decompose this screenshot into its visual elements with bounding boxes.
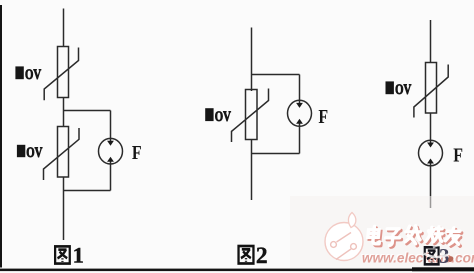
wire node B to F1 branch bottom [64,190,111,192]
label MOV2 [17,145,25,157]
caption glyph 图 of 图2 [239,246,254,263]
caption glyph 图 of 图1 [55,246,70,263]
varistor MOV3 body [246,90,258,140]
varistor MOV3 diagonal [232,89,269,143]
wire fig2 parallel box bottom [252,153,300,155]
wire fig1 top feed [63,9,65,47]
wire F1 branch lower lead [110,161,112,191]
caption numeral 1 of 图1 [73,243,84,268]
varistor MOV4 diagonal [414,65,448,118]
svg-text:OV: OV [25,65,42,82]
wire fig1 bottom feed [63,191,65,241]
wire fig2 parallel box top [252,74,300,76]
arrowhead F2 top [296,103,303,108]
watermark logo link line lower [336,249,351,260]
fuse F3 circle [419,140,443,166]
wire F2 branch lower lead [299,124,301,154]
watermark logo outer circle [325,213,363,261]
border artifact bottom line [0,269,474,272]
caption numeral 3 of 图3 [439,244,450,268]
wire F2 branch upper lead [299,75,301,104]
red artifact mark [448,256,453,262]
svg-text:www.elecfans.com: www.elecfans.com [362,250,474,265]
label MOV3 [205,108,213,121]
svg-text:F: F [132,141,142,163]
fuse F1 circle [99,138,123,164]
arrowhead F2 bottom [296,119,303,124]
wire MOV3 to box bottom [251,140,253,154]
label MOV4 [386,81,394,94]
varistor MOV2 diagonal [44,128,80,180]
svg-text:1: 1 [73,243,84,268]
svg-text:OV: OV [395,80,412,97]
varistor MOV1 diagonal [44,48,78,101]
background wash bottom right [290,196,474,268]
svg-text:OV: OV [26,143,43,160]
wire between MOV1 and node A [63,98,65,128]
watermark logo bubble tail [348,213,355,228]
wire fig2 top feed [251,28,253,92]
watermark brand characters 电子发烧友 [367,226,463,247]
wire fig3 bottom feed [430,163,432,208]
caption numeral 2 of 图2 [256,243,268,269]
watermark logo link line upper [337,233,352,243]
arrowhead F3 top [427,143,434,148]
border artifact left edge [0,5,2,268]
svg-text:F: F [318,105,328,127]
wire fig3 top feed [430,20,432,63]
wire fig2 bottom feed [251,154,253,201]
border artifact bottom right thicker [412,267,474,271]
varistor MOV4 body [426,63,437,114]
svg-text:2: 2 [256,243,268,269]
arrowhead F1 top [107,141,114,146]
svg-text:OV: OV [215,107,232,124]
watermark logo node circle left [331,242,337,248]
varistor MOV2 body [58,127,69,178]
svg-text:F: F [453,143,463,165]
caption glyph 图 of 图3 [425,247,439,264]
wire F1 branch upper lead [110,111,112,142]
watermark overlay strokes across caption 3 [424,254,448,258]
varistor MOV1 body [58,47,69,98]
fuse F2 circle [288,100,312,126]
watermark logo node circle right [351,244,357,250]
arrowhead F3 bottom [427,159,434,164]
watermark url www.elecfans.com [361,249,474,264]
label MOV1 [15,66,23,79]
wire node A to F1 branch top [64,110,111,112]
wire MOV2 to node B [63,177,65,191]
wire MOV4 to F3 [430,113,432,143]
arrowhead F1 bottom [107,157,114,162]
